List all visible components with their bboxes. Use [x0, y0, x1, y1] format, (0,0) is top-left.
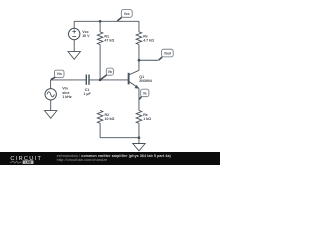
- svg-text:Ve: Ve: [143, 91, 147, 95]
- resistor Re: [136, 110, 142, 137]
- node base junction: [99, 79, 102, 82]
- wire base rail left (Vin corner to C1): [51, 80, 87, 89]
- svg-text:10 kΩ: 10 kΩ: [105, 117, 115, 121]
- wire top rail: [74, 20, 139, 22]
- flag Vin: [51, 70, 64, 80]
- flag Vout: [159, 49, 173, 60]
- svg-text:LAB: LAB: [25, 160, 32, 164]
- ground below Re: [133, 138, 145, 151]
- svg-text:1 µF: 1 µF: [83, 92, 91, 96]
- svg-text:http://circuitlab.com/chandze: http://circuitlab.com/chandze: [57, 158, 108, 162]
- label Vin sine 1 kHz: [62, 87, 72, 99]
- resistor R2: [97, 110, 103, 137]
- resistor R1: [97, 21, 103, 80]
- resistor Rc: [136, 21, 142, 60]
- svg-text:Vin: Vin: [57, 72, 62, 76]
- label Re 1 kOhm: [143, 113, 151, 121]
- svg-text:10 V: 10 V: [82, 34, 90, 38]
- watermark banner: [0, 152, 220, 165]
- svg-text:1 kΩ: 1 kΩ: [143, 117, 151, 121]
- node bottom junction: [138, 136, 141, 139]
- voltage source V1 Vcc: [69, 28, 80, 39]
- label R2 10 kOhm: [105, 113, 115, 121]
- svg-text:Vb: Vb: [108, 70, 112, 74]
- capacitor C1: [86, 75, 89, 85]
- wire Vcc source to ground: [73, 39, 75, 51]
- svg-text:4.7 kΩ: 4.7 kΩ: [143, 39, 154, 43]
- label R1 47 kOhm: [104, 35, 114, 43]
- ground below Vcc source: [68, 52, 80, 60]
- svg-text:2N3904: 2N3904: [139, 79, 152, 83]
- svg-text:Vcc: Vcc: [124, 12, 130, 16]
- svg-text:47 kΩ: 47 kΩ: [104, 39, 114, 43]
- flag Vcc: [117, 10, 132, 21]
- wire Vout stub: [139, 59, 159, 61]
- wire base rail right (C1 to Q1 base): [89, 79, 128, 81]
- label Q1 2N3904: [139, 75, 152, 83]
- svg-text:Vout: Vout: [164, 51, 172, 55]
- wire Vin source to ground: [50, 100, 52, 111]
- wire Vcc source top stub: [73, 21, 75, 28]
- transistor Q1 2N3904: [129, 60, 139, 110]
- voltage source V2 Vin sine: [45, 89, 56, 100]
- flag Ve: [139, 89, 149, 99]
- label Rc 4.7 kOhm: [143, 35, 154, 43]
- node Vout junction: [138, 59, 141, 62]
- flag Vb: [101, 68, 114, 79]
- label Vcc 10 V: [82, 30, 90, 38]
- node junction top rail / R1: [99, 20, 102, 23]
- ground below Vin source: [45, 111, 57, 119]
- svg-text:1 kHz: 1 kHz: [62, 95, 72, 99]
- label C1 1 uF: [83, 88, 91, 96]
- wire bottom rail: [100, 137, 139, 139]
